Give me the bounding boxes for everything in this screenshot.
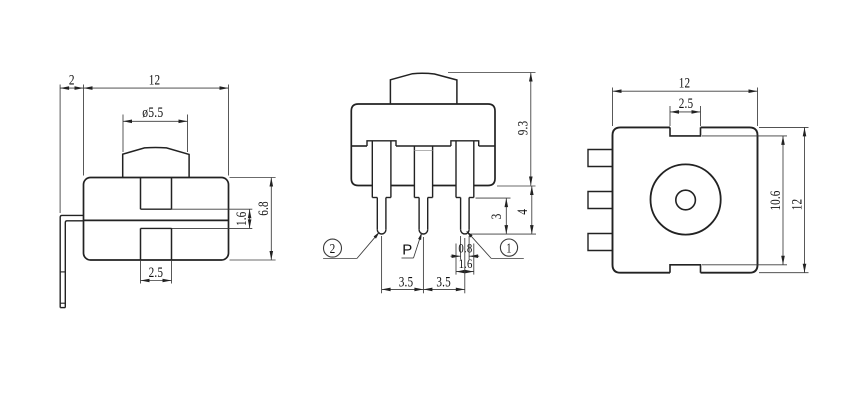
left view: slot top edge line bbox=[141, 208, 172, 210]
front view: extension line button top bbox=[448, 72, 536, 74]
leader line to pin 2-terminal bbox=[323, 258, 357, 260]
front view: extension lines shaft width bbox=[455, 244, 457, 275]
left view: bent side pin bbox=[60, 215, 83, 307]
svg-text:12: 12 bbox=[789, 199, 805, 211]
front view: switch body outline bbox=[351, 104, 495, 179]
top view: extension line notch bottom bbox=[702, 135, 787, 137]
left view: dimension line 2/12 bbox=[60, 87, 228, 89]
front view: extension line pin3 centre bbox=[464, 238, 466, 293]
top view: extension lines width bbox=[612, 88, 614, 127]
front view: dimension line 3.5 right bbox=[423, 288, 464, 290]
svg-text:2.5: 2.5 bbox=[149, 265, 164, 281]
left view: dimension line 1.6 bbox=[249, 209, 251, 228]
svg-text:P: P bbox=[402, 242, 412, 259]
svg-text:12: 12 bbox=[149, 72, 161, 88]
top view: extension line bottom notch top bbox=[702, 264, 787, 266]
top view: dimension line 2.5 bbox=[670, 111, 701, 113]
left view: push button cap bbox=[123, 148, 189, 178]
svg-text:1.6: 1.6 bbox=[234, 212, 250, 227]
front view: dimension line 4 bbox=[531, 186, 533, 234]
pin P (middle) hidden seat line bbox=[414, 150, 432, 152]
top view: bottom stem notch bbox=[670, 265, 701, 273]
svg-text:2: 2 bbox=[330, 242, 336, 257]
leader line to pin P bbox=[402, 257, 414, 259]
front view: extension line body bottom right bbox=[497, 185, 536, 187]
svg-text:3.5: 3.5 bbox=[436, 274, 451, 290]
top view: side tab lower bbox=[588, 234, 613, 251]
leader circle 1 bbox=[500, 239, 517, 256]
front view: body parting line bbox=[351, 145, 367, 147]
top view: button centre hole bbox=[676, 190, 696, 210]
left view: extension lines body height bbox=[230, 177, 276, 179]
front view: dimension line 1.6 bbox=[456, 271, 474, 273]
svg-text:ø5.5: ø5.5 bbox=[142, 105, 163, 121]
top view: side tab middle bbox=[588, 192, 613, 209]
pin P (middle) round tip bbox=[419, 230, 428, 234]
svg-text:9.3: 9.3 bbox=[516, 121, 532, 136]
left view: extension line body-left bbox=[83, 85, 85, 176]
svg-text:10.6: 10.6 bbox=[768, 191, 784, 211]
svg-text:2.5: 2.5 bbox=[679, 96, 694, 112]
svg-text:1: 1 bbox=[506, 242, 511, 257]
pin 2-terminal (left) flange bbox=[367, 141, 396, 146]
front view: body bottom edge bbox=[351, 179, 372, 186]
left view: upper stem notch bbox=[140, 178, 142, 210]
top view: dimension line 12 bbox=[613, 90, 758, 92]
pin 2-terminal (left) shaft bbox=[371, 141, 373, 198]
top view: extension lines notch width bbox=[669, 106, 671, 126]
pin 2-terminal (left) round tip bbox=[377, 230, 386, 234]
front view: dimension line 3.5 left bbox=[382, 288, 424, 290]
front view: extension line pinP centre bbox=[422, 237, 424, 293]
top view: button outer circle bbox=[651, 164, 721, 234]
top view: top stem notch bbox=[670, 127, 701, 135]
svg-text:3.5: 3.5 bbox=[399, 274, 414, 290]
svg-text:1.6: 1.6 bbox=[459, 256, 473, 271]
svg-text:4: 4 bbox=[515, 208, 531, 214]
leader circle 2 bbox=[324, 239, 342, 257]
top view: dimension line 12 right bbox=[804, 127, 806, 272]
left view: slot bottom edge line bbox=[141, 227, 172, 229]
top view: switch body outline bbox=[613, 127, 758, 272]
front view: dimension line 3 bbox=[505, 198, 507, 234]
pin 1-terminal (right) round tip bbox=[461, 230, 470, 234]
svg-text:3: 3 bbox=[489, 214, 505, 220]
top view: side tab upper bbox=[588, 150, 613, 167]
left view: extension line pin-left bbox=[59, 85, 61, 214]
svg-text:6.8: 6.8 bbox=[256, 201, 272, 216]
front view: push button cap bbox=[390, 73, 457, 104]
svg-text:0.8: 0.8 bbox=[458, 241, 472, 256]
pin P (middle) shaft bbox=[413, 146, 415, 198]
left view: dimension line o5.5 bbox=[123, 120, 188, 122]
front view: dimension line 9.3 bbox=[530, 73, 532, 186]
pin 1-terminal (right) shaft bbox=[455, 141, 457, 198]
front view: extension line pin shoulder bbox=[476, 197, 511, 199]
front view: extension line pin1 centre bbox=[381, 236, 383, 293]
left view: extension line body-right bbox=[228, 85, 230, 176]
top view: extension line top edge bbox=[759, 126, 809, 128]
left view: lower stem notch bbox=[140, 228, 142, 260]
left view: body parting line bbox=[84, 219, 229, 221]
pin 1-terminal (right) flange bbox=[451, 141, 479, 146]
left view: extension lines button width bbox=[122, 115, 124, 153]
front view: extension lines tip width bbox=[460, 236, 462, 260]
leader line to pin 1-terminal bbox=[491, 258, 524, 260]
left view: dimension line 2.5 bbox=[141, 280, 172, 282]
svg-text:12: 12 bbox=[679, 76, 691, 92]
front view: dimension line 0.8 bbox=[451, 255, 461, 257]
svg-text:2: 2 bbox=[69, 73, 75, 89]
top view: dimension line 10.6 bbox=[782, 136, 784, 265]
left view: switch body outline bbox=[84, 178, 229, 261]
front view: extension line pin tip level bbox=[471, 233, 537, 235]
top view: extension line bottom edge bbox=[759, 272, 809, 274]
left view: lower notch extension lines bbox=[140, 260, 142, 284]
left view: dimension line 6.8 bbox=[270, 178, 272, 261]
